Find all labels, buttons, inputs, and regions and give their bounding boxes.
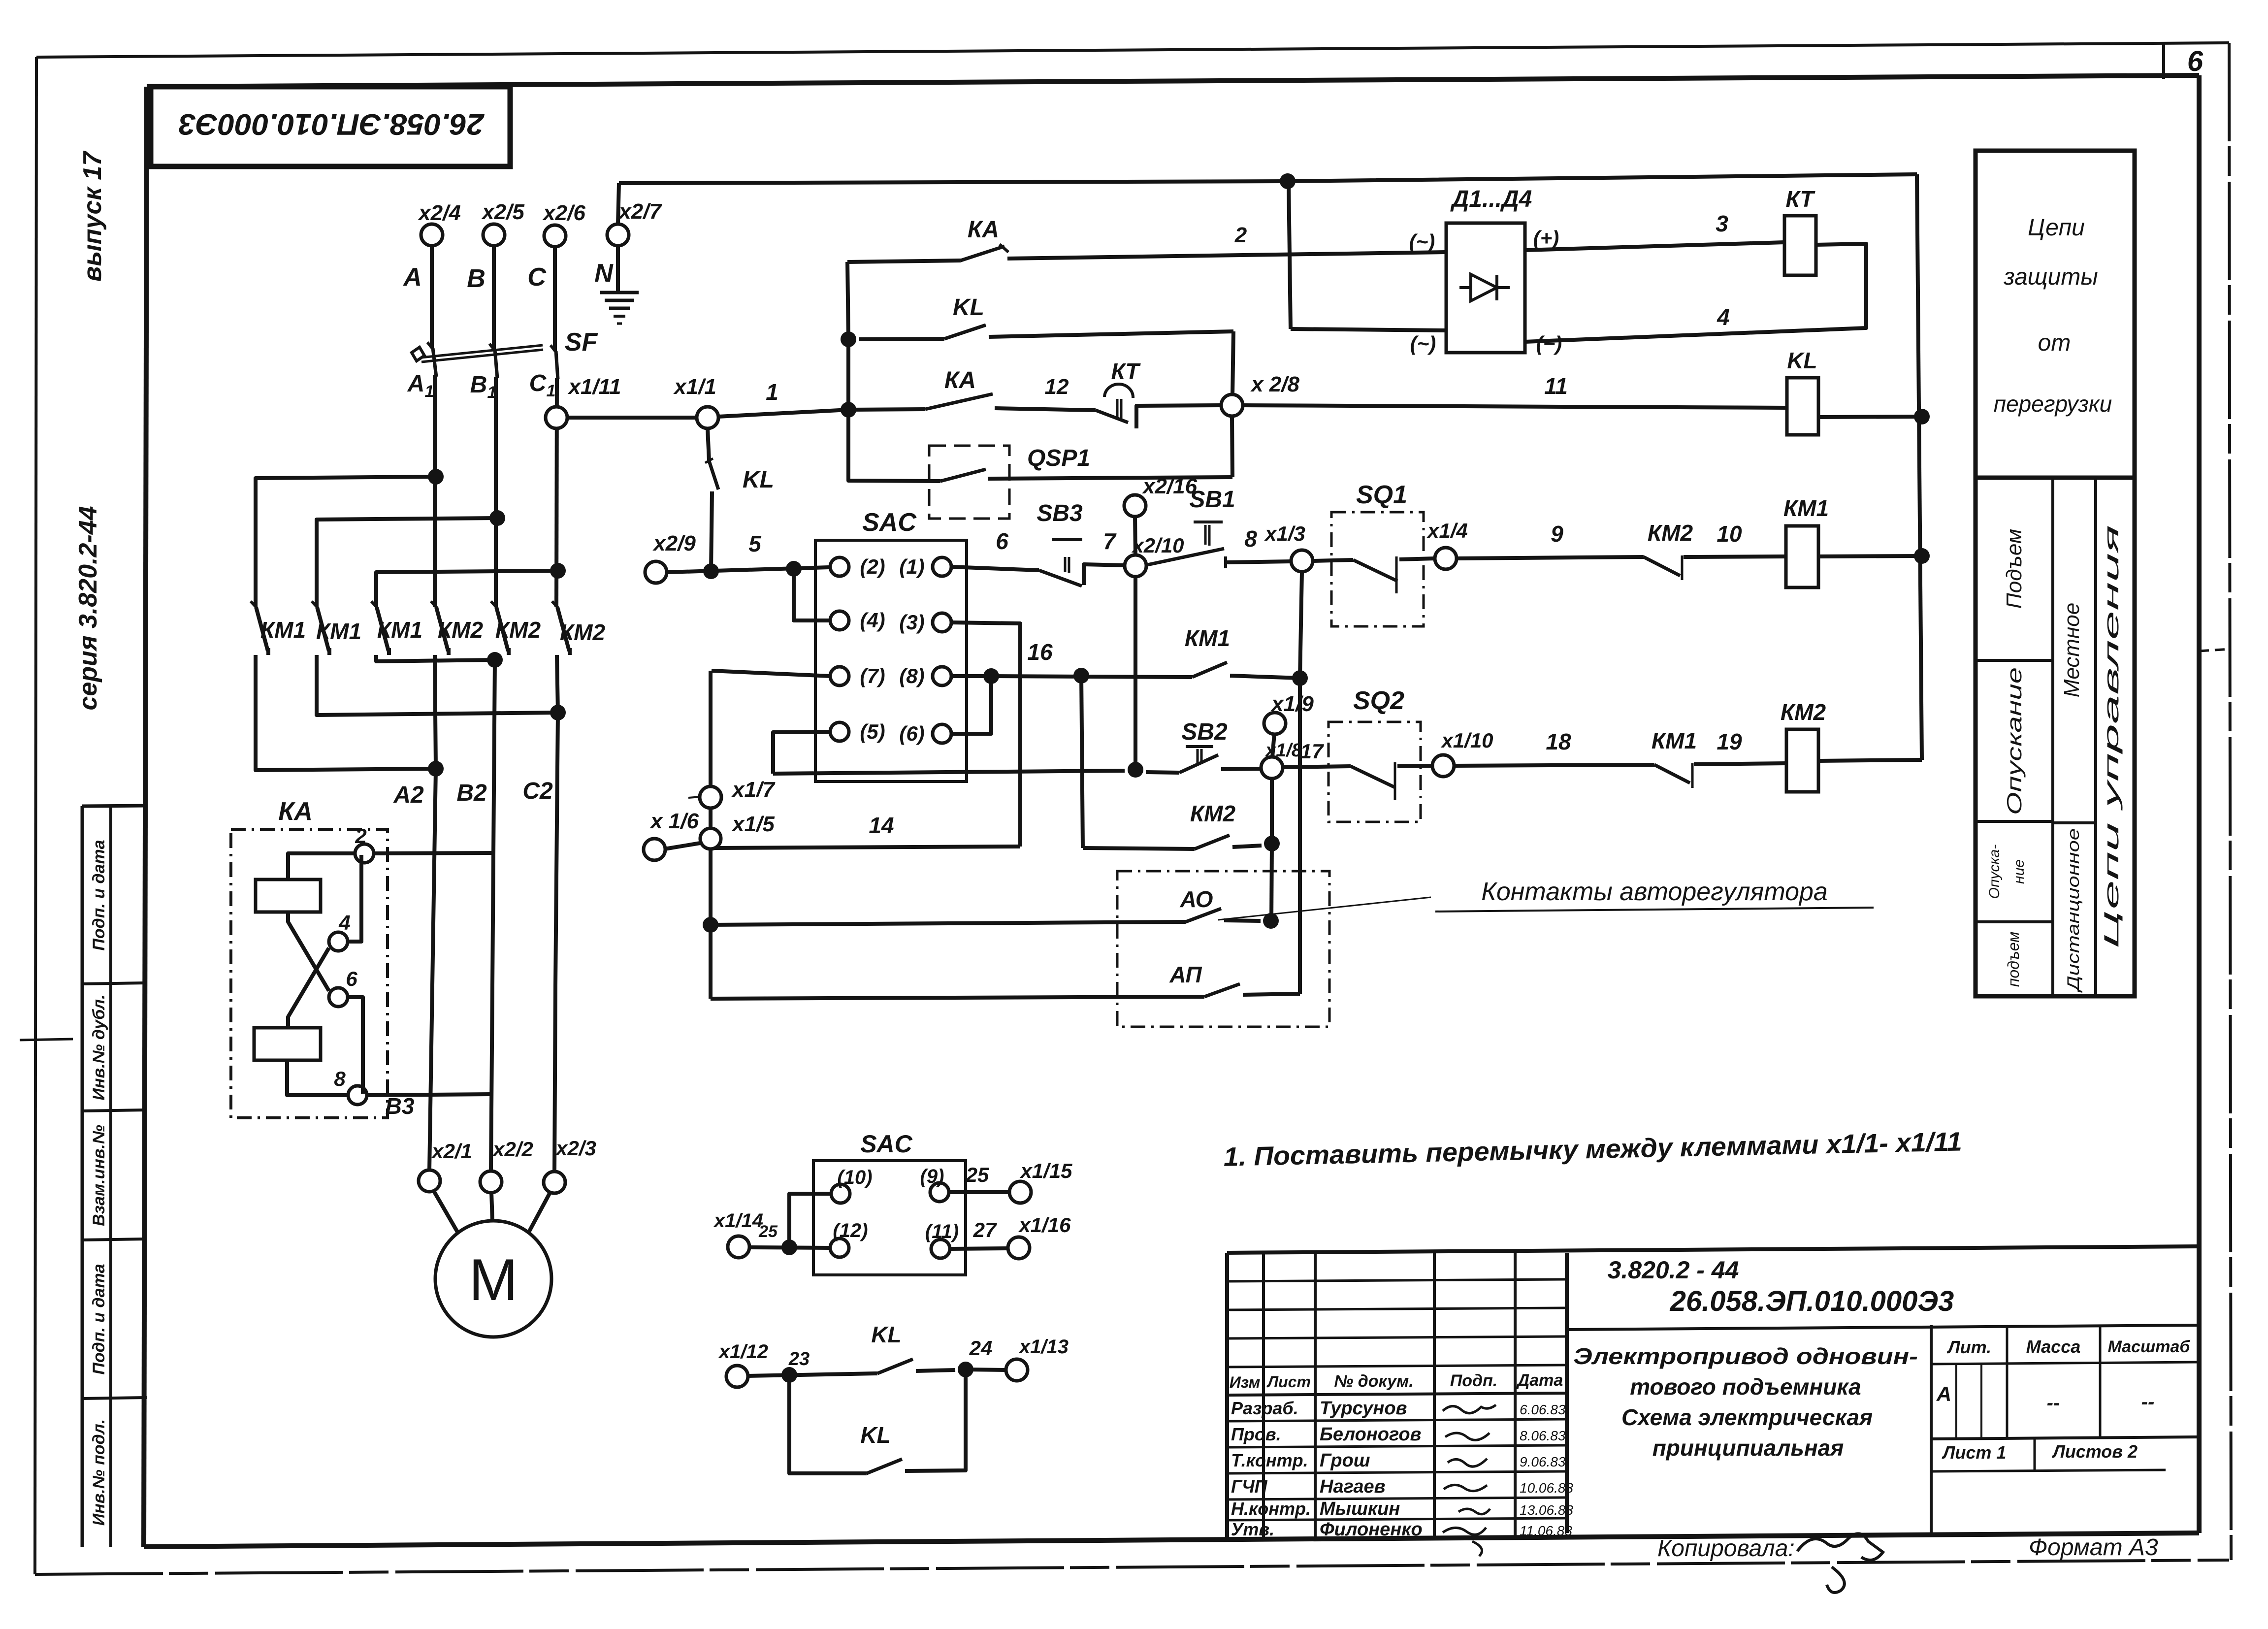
wire AO right	[1224, 920, 1261, 921]
wire KM2 row	[1083, 848, 1195, 849]
svg-text:Инв.№ подл.: Инв.№ подл.	[90, 1419, 108, 1526]
circuit breaker SF flag	[412, 347, 424, 361]
terminal x1/7	[688, 797, 701, 798]
table divider opuskanie/opuska	[1976, 820, 2053, 823]
svg-text:(~): (~)	[1409, 230, 1435, 253]
cam switch SAC lower box	[813, 1161, 966, 1275]
svg-text:(7): (7)	[860, 664, 885, 687]
svg-text:Мышкин: Мышкин	[1320, 1499, 1400, 1519]
svg-text:x2/4: x2/4	[418, 201, 461, 225]
terminal x1/8	[1261, 757, 1283, 779]
svg-text:SF: SF	[565, 328, 598, 357]
svg-text:19: 19	[1717, 729, 1742, 754]
svg-text:АП: АП	[1169, 962, 1202, 987]
svg-text:от: от	[2038, 330, 2071, 356]
rectifier D1..D4 box	[1446, 223, 1525, 353]
return bus vertical right	[1917, 174, 1922, 760]
wire AP row corner	[711, 997, 1204, 999]
wire KM1-1 feed	[256, 477, 436, 607]
node junction x1/3 drop	[1292, 670, 1308, 686]
left column divider 1	[82, 983, 147, 984]
contact SB3 bracket	[1084, 564, 1125, 585]
contact AO	[1186, 909, 1221, 922]
contact KT fixed bracket	[1136, 405, 1221, 428]
wire 11	[1243, 405, 1787, 408]
wire 9	[1457, 557, 1644, 558]
wire x1/9 stub	[1272, 734, 1274, 757]
terminal x2/3	[544, 1172, 565, 1193]
SAC pin 6	[933, 724, 951, 743]
svg-text:Разраб.: Разраб.	[1231, 1398, 1298, 1418]
outer sheet border left	[35, 57, 36, 1574]
KA terminal 8	[348, 1086, 367, 1105]
wire QSP1 left	[848, 410, 940, 481]
motor lead A	[433, 1190, 460, 1237]
terminal x1/4	[1435, 548, 1457, 569]
svg-text:14: 14	[869, 813, 894, 838]
node junction A to KM1-1	[428, 469, 444, 485]
svg-text:x 1/6: x 1/6	[649, 809, 699, 833]
wire KL contact to wire5 junction	[711, 491, 712, 571]
wire KA terminal 8 to bus B2	[367, 1094, 491, 1095]
svg-text:Лист 1: Лист 1	[1942, 1442, 2007, 1463]
wire 1 to junction	[718, 410, 848, 417]
wire SAC jumper 2-4	[794, 569, 831, 620]
svg-text:N: N	[594, 259, 614, 288]
wire into SQ1	[1313, 560, 1353, 561]
wire 10	[1684, 556, 1786, 557]
node junction C2	[550, 705, 566, 720]
terminal x1/15	[1009, 1181, 1031, 1203]
svg-text:x1/16: x1/16	[1018, 1213, 1071, 1237]
svg-text:7: 7	[1103, 528, 1117, 554]
wire KM1-2 feed	[317, 518, 497, 607]
SAC pin 10	[831, 1184, 850, 1203]
svg-text:Утв.: Утв.	[1231, 1519, 1274, 1539]
svg-text:(+): (+)	[1533, 227, 1559, 250]
svg-text:Дистанционное: Дистанционное	[2064, 828, 2083, 993]
list divider	[2034, 1439, 2036, 1471]
svg-text:(10): (10)	[837, 1167, 872, 1188]
svg-text:ГЧП: ГЧП	[1231, 1476, 1268, 1497]
svg-text:Грош: Грош	[1320, 1450, 1370, 1471]
contact SB1 hook	[1224, 556, 1227, 568]
KA upper CT coil	[256, 880, 321, 912]
inner drawing frame bottom	[144, 1533, 2199, 1547]
svg-text:(12): (12)	[833, 1220, 868, 1241]
inner drawing frame left	[144, 87, 147, 1547]
wire A1 vertical upper	[433, 375, 437, 607]
contact KL vertical	[709, 461, 718, 489]
svg-text:Электропривод одновин-: Электропривод одновин-	[1573, 1343, 1918, 1369]
svg-text:6.06.83: 6.06.83	[1520, 1402, 1566, 1417]
svg-text:17: 17	[1300, 740, 1324, 763]
wire KM2 coil to return bus	[1818, 760, 1922, 761]
svg-text:Копировала:: Копировала:	[1657, 1535, 1795, 1562]
svg-text:Подп.: Подп.	[1450, 1371, 1497, 1390]
contact KM2 pole2	[491, 601, 497, 608]
terminal x2/10	[1125, 555, 1146, 577]
wire 12	[995, 408, 1096, 410]
svg-text:KL: KL	[1787, 348, 1817, 373]
wire 16	[991, 676, 1192, 677]
svg-text:Нагаев: Нагаев	[1320, 1476, 1386, 1497]
wire C2 vertical	[554, 655, 558, 1172]
KA terminal 6 stub	[348, 997, 363, 1094]
svg-text:QSP1: QSP1	[1027, 445, 1090, 471]
svg-text:Формат А3: Формат А3	[2029, 1534, 2158, 1561]
wire x2/16 vertical lower	[1134, 576, 1137, 770]
svg-text:10: 10	[1717, 521, 1742, 547]
motor lead B	[491, 1192, 492, 1221]
SAC pin 9	[930, 1183, 949, 1202]
svg-text:B: B	[470, 372, 487, 398]
contact QSP1	[940, 469, 986, 481]
svg-text:(5): (5)	[860, 720, 885, 743]
contact KL lower 2	[867, 1459, 902, 1473]
svg-text:B2: B2	[456, 780, 487, 806]
svg-text:12: 12	[1045, 375, 1069, 399]
wire phase C to SF	[553, 246, 557, 351]
title block columns	[1262, 1253, 1265, 1540]
svg-text:3: 3	[1716, 211, 1728, 236]
contact KM1 pole3	[371, 601, 378, 608]
svg-text:A: A	[402, 263, 422, 292]
svg-text:x2/9: x2/9	[652, 531, 696, 555]
svg-text:КТ: КТ	[1786, 186, 1816, 212]
terminal x1/5	[700, 828, 721, 849]
svg-text:ние: ние	[2011, 859, 2027, 884]
svg-text:SB2: SB2	[1181, 719, 1228, 745]
svg-text:--: --	[2047, 1392, 2060, 1414]
node junction KM2 row to x1/8 drop	[1264, 836, 1280, 851]
wire 25 pin9 to x1/15	[949, 1190, 1009, 1194]
outer sheet border right	[2229, 43, 2231, 1560]
svg-text:(3): (3)	[899, 611, 924, 634]
left column divider 3	[82, 1239, 147, 1240]
svg-text:11: 11	[1544, 373, 1568, 399]
svg-text:АО: АО	[1180, 886, 1213, 912]
wire x1/8 vertical chain	[1270, 778, 1274, 844]
svg-text:Подп. и дата: Подп. и дата	[90, 840, 108, 950]
wire 2 to rectifier	[1007, 252, 1446, 259]
terminal x1/14	[728, 1236, 749, 1258]
svg-text:9.06.83: 9.06.83	[1520, 1454, 1566, 1469]
node junction 24	[958, 1362, 973, 1377]
svg-text:КМ1: КМ1	[316, 619, 361, 644]
terminal X2/4	[421, 224, 443, 246]
svg-text:(−): (−)	[1536, 332, 1562, 355]
wire 5	[667, 567, 829, 572]
table divider col2-col3	[2094, 478, 2097, 996]
svg-text:1: 1	[547, 382, 556, 400]
interlock QSP1 box	[929, 446, 1009, 519]
svg-text:Масштаб: Масштаб	[2108, 1337, 2191, 1356]
svg-text:Филоненко: Филоненко	[1320, 1519, 1423, 1540]
node junction drop to KM2 row	[1073, 668, 1089, 684]
svg-text:КМ2: КМ2	[1648, 520, 1693, 546]
svg-text:x1/9: x1/9	[1270, 692, 1314, 716]
svg-text:Турсунов: Турсунов	[1320, 1398, 1407, 1419]
wire KL2 up	[905, 1369, 966, 1471]
contact KM1 pole2	[312, 601, 318, 608]
svg-text:KL: KL	[953, 294, 984, 321]
outer sheet border bottom	[35, 1560, 2229, 1574]
svg-text:6: 6	[346, 967, 357, 990]
terminal x1/13	[1006, 1359, 1028, 1381]
svg-text:C: C	[527, 263, 547, 292]
svg-text:x2/1: x2/1	[431, 1140, 472, 1163]
wire QSP1 right to x2/8	[988, 477, 1232, 479]
fold mark tick left border	[20, 1039, 73, 1040]
wire SAC pin6 to pin8 node	[951, 676, 991, 734]
KA terminal 6	[329, 988, 348, 1007]
svg-text:Дата: Дата	[1516, 1371, 1563, 1390]
page number box divider	[2162, 44, 2165, 79]
terminal x2/16	[1124, 495, 1146, 517]
circuit breaker SF pole B	[489, 344, 495, 351]
svg-text:x1/8: x1/8	[1264, 740, 1302, 761]
terminal x1/11 on C1	[546, 407, 567, 428]
svg-text:принципиальная: принципиальная	[1652, 1435, 1844, 1461]
table divider opuska/podem2	[1976, 920, 2053, 923]
svg-text:Цепи управления: Цепи управления	[2100, 525, 2123, 948]
terminal x2/8	[1221, 394, 1243, 416]
wire KM1-3 out to B2	[376, 655, 495, 661]
svg-text:(2): (2)	[860, 555, 885, 578]
contactor coil KM2	[1786, 729, 1818, 792]
KA cross wiring X	[288, 912, 329, 991]
node junction x1/14	[781, 1239, 797, 1255]
svg-text:выпуск 17: выпуск 17	[78, 151, 107, 282]
svg-text:6: 6	[996, 528, 1008, 554]
terminal X2/7	[607, 224, 629, 246]
wire to x1/13	[966, 1369, 1006, 1370]
svg-text:x1/12: x1/12	[718, 1341, 768, 1363]
wire SQ1 out	[1399, 558, 1435, 559]
svg-text:Лит.: Лит.	[1946, 1337, 1991, 1357]
svg-text:1: 1	[766, 379, 778, 405]
cam switch SAC box	[815, 540, 967, 782]
node junction SAC 2-4	[786, 561, 802, 577]
contact KM2 interlock lower	[1195, 835, 1230, 849]
wire B2 vertical	[491, 655, 495, 1172]
SAC pin 7	[830, 667, 849, 685]
terminal X2/6	[544, 225, 566, 247]
title block header row line	[1227, 1393, 1567, 1395]
contact KM1 interlock 2	[1654, 765, 1690, 783]
svg-text:Н.контр.: Н.контр.	[1231, 1499, 1311, 1519]
wire SQ2 out	[1397, 766, 1432, 766]
svg-text:4: 4	[1717, 304, 1730, 330]
wire x1/5 down	[709, 849, 713, 999]
circuit breaker SF crossbar	[421, 345, 543, 358]
svg-text:КА: КА	[944, 367, 976, 393]
svg-text:КА: КА	[278, 797, 313, 826]
title block outline	[1227, 1246, 2199, 1253]
svg-text:Инв.№ дубл.: Инв.№ дубл.	[90, 995, 108, 1101]
svg-text:10.06.83: 10.06.83	[1520, 1480, 1573, 1496]
node junction AO row	[703, 917, 718, 933]
node junction rectifier branch	[1280, 173, 1296, 189]
node junction x1/12	[781, 1367, 797, 1383]
ground symbol	[600, 291, 639, 294]
table control section frame	[1976, 478, 2135, 996]
svg-text:x 2/8: x 2/8	[1250, 372, 1299, 396]
svg-text:Опускание: Опускание	[2003, 667, 2026, 815]
wire drop to KM2 row	[1081, 676, 1083, 848]
wire KL row drop to x2/8	[1232, 331, 1233, 395]
svg-text:Масса: Масса	[2026, 1336, 2081, 1357]
wire x1/7 to x1/5	[709, 808, 713, 828]
terminal X2/5	[483, 224, 505, 246]
svg-text:x1/13: x1/13	[1018, 1336, 1069, 1358]
wire 18	[1454, 765, 1654, 766]
svg-text:подъем: подъем	[2005, 932, 2022, 987]
wire SAC pin8 out	[951, 674, 991, 678]
wire KM1-1 out to A2	[256, 655, 436, 770]
svg-text:Подъем: Подъем	[2002, 529, 2026, 609]
node junction KL row	[841, 331, 856, 347]
svg-text:Местное: Местное	[2060, 603, 2084, 697]
terminal x1/12	[726, 1366, 748, 1387]
svg-text:Пров.: Пров.	[1231, 1424, 1281, 1444]
svg-text:11.06.83: 11.06.83	[1520, 1523, 1572, 1538]
wire SAC pin5 out	[773, 732, 831, 774]
wire neutral up to control bus	[618, 183, 619, 225]
svg-text:8: 8	[334, 1067, 346, 1090]
svg-text:Схема электрическая: Схема электрическая	[1621, 1404, 1873, 1430]
svg-text:защиты: защиты	[2003, 264, 2098, 290]
svg-text:--: --	[2141, 1391, 2155, 1413]
svg-text:9: 9	[1551, 521, 1563, 547]
wire x1/8 to SQ2	[1283, 766, 1351, 767]
wire KL parallel branch	[789, 1375, 867, 1473]
svg-text:перегрузки: перегрузки	[1994, 391, 2112, 417]
svg-text:Лист: Лист	[1266, 1373, 1311, 1391]
svg-text:26.058.ЭП.010.000Э3: 26.058.ЭП.010.000Э3	[179, 108, 485, 141]
node junction AO	[1263, 913, 1279, 929]
svg-text:КМ1: КМ1	[260, 617, 306, 643]
list row line	[1931, 1470, 2166, 1471]
svg-text:13.06.83: 13.06.83	[1520, 1502, 1573, 1518]
contact KT time-delay	[1096, 410, 1128, 423]
wire KM2 row right	[1232, 846, 1262, 847]
button SB3	[1039, 570, 1082, 586]
wire 1	[567, 416, 697, 420]
node junction x2/16 bottom	[1128, 762, 1143, 778]
wire control feed vertical	[847, 262, 848, 410]
wire KL coil to return bus	[1818, 417, 1921, 417]
svg-text:М: М	[469, 1247, 518, 1313]
wire 27 pin11 to x1/16	[950, 1248, 1008, 1249]
wire KM1 coil to return bus	[1818, 556, 1921, 556]
fold mark tick right margin	[2199, 649, 2231, 651]
svg-text:КМ1: КМ1	[377, 617, 422, 643]
wire jumper pin10	[789, 1194, 831, 1247]
SAC pin 5	[830, 722, 849, 741]
wire KL row	[859, 339, 944, 339]
svg-text:SAC: SAC	[860, 1130, 912, 1158]
motor M	[435, 1221, 551, 1337]
svg-text:КМ2: КМ2	[1190, 801, 1236, 826]
contact KM2 pole3	[552, 601, 558, 608]
svg-text:КМ1: КМ1	[1783, 495, 1829, 521]
svg-text:KL: KL	[860, 1422, 890, 1448]
svg-text:16: 16	[1027, 639, 1053, 665]
contact SQ1	[1353, 560, 1397, 581]
svg-text:x1/14: x1/14	[713, 1210, 763, 1232]
svg-text:КМ1: КМ1	[1185, 625, 1230, 651]
wire KT coil return	[1525, 244, 1866, 342]
terminal x1/10	[1432, 755, 1454, 777]
wire neutral down	[616, 245, 620, 292]
button SB1	[1147, 549, 1224, 565]
svg-text:5: 5	[748, 531, 762, 556]
wire QSP1 rise to x2/8	[1232, 416, 1232, 477]
wire SB2 to x1/8	[1221, 769, 1261, 769]
svg-text:SQ1: SQ1	[1356, 481, 1407, 509]
node junction wire 1	[841, 402, 856, 418]
svg-text:x1/5: x1/5	[731, 812, 775, 836]
svg-text:(6): (6)	[899, 722, 924, 745]
wire phase A to SF	[430, 245, 434, 348]
svg-text:КМ2: КМ2	[495, 617, 541, 643]
svg-text:A: A	[407, 371, 425, 397]
svg-text:Листов 2: Листов 2	[2051, 1441, 2138, 1462]
wire AP right	[1243, 994, 1300, 995]
svg-text:SB1: SB1	[1189, 487, 1235, 513]
svg-text:Подп. и дата: Подп. и дата	[90, 1264, 108, 1374]
svg-text:4: 4	[338, 911, 350, 934]
signatures column squiggles	[1443, 1405, 1496, 1413]
SAC pin 2	[830, 557, 849, 576]
svg-text:SQ2: SQ2	[1353, 686, 1404, 715]
node junction A2	[428, 761, 444, 777]
svg-text:серия 3.820.2-44: серия 3.820.2-44	[74, 506, 102, 710]
svg-text:8.06.83: 8.06.83	[1520, 1428, 1566, 1443]
svg-text:КТ: КТ	[1111, 358, 1141, 384]
contact SQ2	[1351, 766, 1395, 787]
svg-text:18: 18	[1546, 729, 1571, 754]
contact KM2 interlock	[1644, 557, 1680, 576]
wire x1/3 down chain	[1300, 572, 1302, 678]
KA lower coil to terminal 8	[287, 1060, 348, 1095]
wire x1/14 to pin12	[749, 1247, 830, 1248]
svg-text:x2/7: x2/7	[618, 199, 662, 224]
wire x1/7 up to SAC7 row	[709, 671, 713, 787]
svg-text:Контакты авторегулятора: Контакты авторегулятора	[1481, 878, 1828, 906]
svg-text:Д1...Д4: Д1...Д4	[1450, 186, 1532, 212]
node junction C to KM1-3	[550, 563, 566, 579]
svg-text:Взам.инв.№: Взам.инв.№	[90, 1125, 108, 1226]
wire KL1 right	[916, 1370, 955, 1371]
wire KL row right	[989, 331, 1233, 337]
KA terminal 2	[355, 844, 374, 863]
contact KM1 pole1	[251, 601, 257, 608]
wire x1/6 to x1/5	[665, 843, 700, 849]
svg-text:(9): (9)	[920, 1166, 944, 1187]
svg-text:C: C	[529, 370, 547, 396]
wire 14	[715, 847, 1020, 848]
wire x1/1 down to KL contact	[708, 428, 709, 461]
svg-text:24: 24	[969, 1336, 993, 1360]
svg-text:(8): (8)	[899, 664, 924, 687]
terminal x1/16	[1008, 1237, 1030, 1259]
svg-text:КМ1: КМ1	[1652, 728, 1697, 753]
svg-text:(11): (11)	[925, 1221, 959, 1242]
svg-text:6: 6	[2187, 45, 2203, 77]
